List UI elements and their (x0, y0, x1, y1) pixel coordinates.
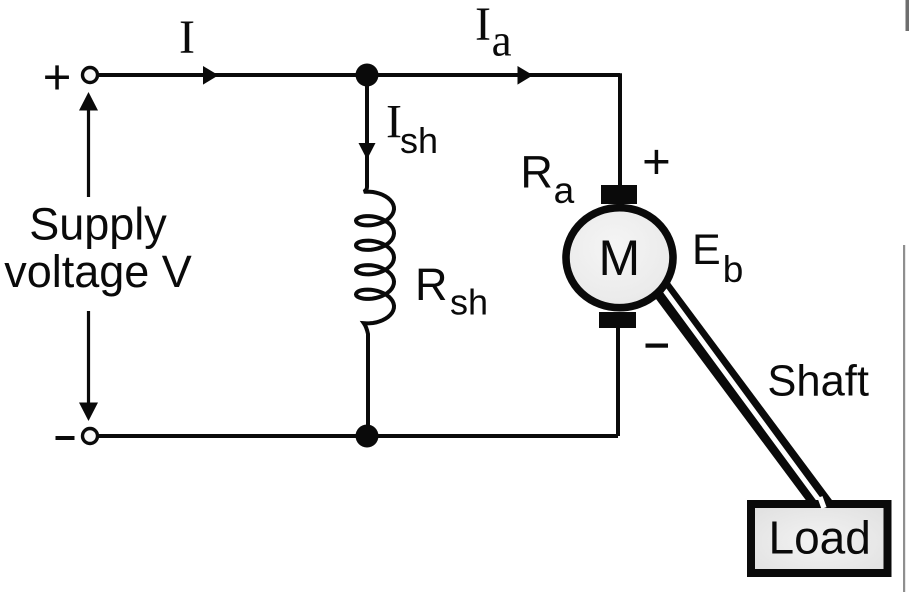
svg-text:Supply: Supply (29, 199, 167, 250)
svg-text:b: b (723, 249, 744, 290)
svg-text:M: M (599, 230, 641, 286)
svg-text:sh: sh (400, 120, 438, 161)
svg-text:R: R (520, 147, 553, 198)
svg-text:Shaft: Shaft (767, 358, 869, 406)
svg-text:a: a (554, 170, 575, 211)
svg-text:R: R (415, 259, 448, 310)
svg-text:+: + (642, 135, 671, 189)
svg-text:+: + (43, 51, 72, 105)
svg-text:a: a (492, 16, 512, 66)
svg-text:I: I (475, 0, 491, 51)
svg-text:Load: Load (769, 512, 871, 564)
svg-text:voltage V: voltage V (4, 246, 192, 297)
svg-text:sh: sh (450, 282, 488, 323)
svg-text:E: E (692, 226, 721, 274)
svg-text:I: I (179, 11, 195, 64)
